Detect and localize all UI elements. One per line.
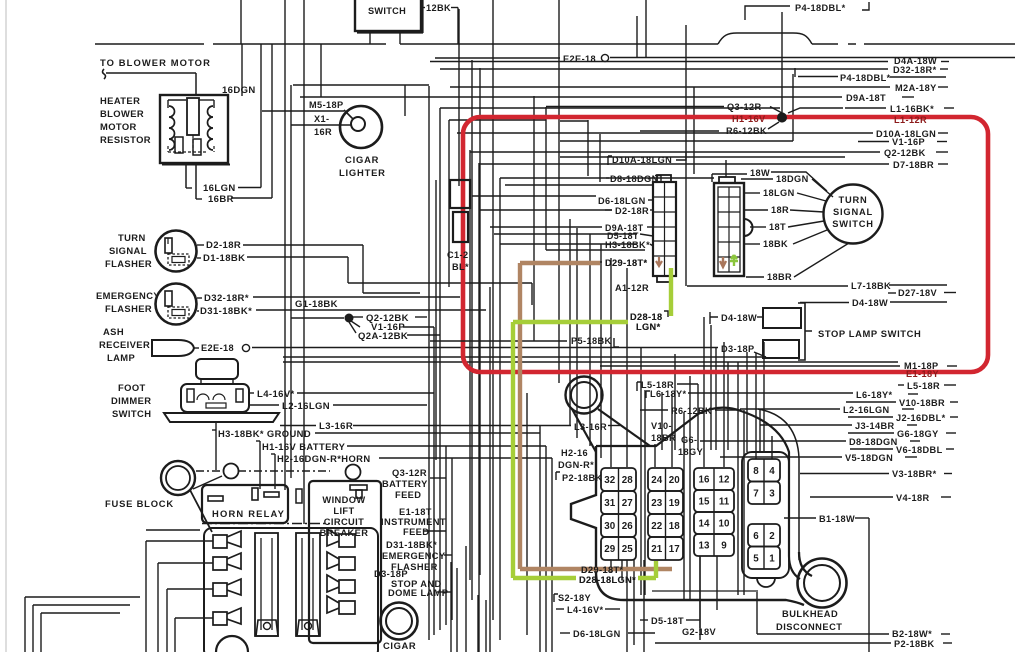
wire Q3 diag <box>770 107 782 114</box>
svg-text:18GY: 18GY <box>678 447 703 457</box>
wire M1-18P <box>600 365 900 367</box>
svg-text:29: 29 <box>604 544 615 555</box>
wire D4 left <box>800 302 849 304</box>
svg-text:V6-18DBL: V6-18DBL <box>896 445 943 455</box>
bulkhead lobe inner <box>571 382 597 408</box>
trunk wire v x=590 <box>589 234 591 446</box>
wire H3 bracket <box>215 430 217 470</box>
svg-text:D29-18T*: D29-18T* <box>581 565 624 575</box>
wire G1-18BK to junction <box>291 317 344 319</box>
trunk wire v x=534 <box>533 96 535 341</box>
dimmer dashed arc2 <box>213 394 225 400</box>
svg-text:E2E-18: E2E-18 <box>563 54 596 64</box>
svg-text:BULKHEAD: BULKHEAD <box>782 609 838 619</box>
svg-text:BL*: BL* <box>452 262 469 272</box>
svg-text:TURN: TURN <box>118 232 146 243</box>
svg-text:Q2-12BK: Q2-12BK <box>884 148 926 158</box>
svg-text:TO BLOWER MOTOR: TO BLOWER MOTOR <box>100 57 211 68</box>
svg-text:D2-18R: D2-18R <box>206 240 241 251</box>
svg-text:P5-18BK: P5-18BK <box>571 336 612 346</box>
wire 16LGN drop <box>185 163 187 188</box>
svg-text:LIFT: LIFT <box>333 506 354 516</box>
wire under red top <box>560 140 793 142</box>
resistor center lead down <box>192 135 194 152</box>
wire P4-18DBL drop <box>794 68 796 77</box>
trunk wire v x=434 <box>433 327 435 635</box>
connector B cell line y=227 <box>718 226 740 228</box>
svg-text:HEATER: HEATER <box>100 95 140 106</box>
window lift circuit breaker CB1 <box>309 481 381 643</box>
junction node G1 <box>345 314 354 323</box>
svg-text:D8-18DGN: D8-18DGN <box>610 174 659 184</box>
trunk wire v x=480 <box>479 68 481 575</box>
cigar lighter pointer <box>344 110 353 119</box>
wire L1 dash <box>944 107 954 109</box>
svg-text:L1-16BK*: L1-16BK* <box>890 104 934 114</box>
fuse clip left 3 <box>213 579 241 596</box>
svg-text:G6-18GY: G6-18GY <box>897 429 939 439</box>
wire L7 right <box>889 284 947 286</box>
wire Q2-12BK right <box>415 316 427 318</box>
green wire D28-18LGN vertical left <box>511 322 515 578</box>
resistor dashed right <box>213 146 215 152</box>
svg-text:24: 24 <box>651 475 662 486</box>
trunk wire v x=704 <box>703 317 705 467</box>
svg-text:18R: 18R <box>771 205 789 215</box>
svg-text:P4-18DBL*: P4-18DBL* <box>840 73 891 83</box>
wire D2-18R stub <box>197 244 204 246</box>
wire D29 dash <box>596 261 602 263</box>
bus wire seg4 <box>812 43 838 45</box>
trunk wire v x=559 <box>558 0 560 383</box>
cb terminal small <box>296 489 302 503</box>
wire below switch box 2 <box>399 31 401 44</box>
trunk wire v x=711 <box>710 325 712 450</box>
wire L2 dash <box>902 408 914 410</box>
wire 16BR drop <box>195 163 197 199</box>
svg-text:FEED: FEED <box>403 527 429 537</box>
wire fuse2 drop <box>157 563 159 652</box>
bracket D10A left <box>608 156 612 165</box>
wire D2-18R drop <box>362 245 364 293</box>
bottom left circle <box>216 636 248 652</box>
bus wire seg2 <box>213 43 386 45</box>
cigar lighter housing inner <box>386 608 412 634</box>
trunk wire v x=744 <box>743 410 745 595</box>
svg-text:V5-18DGN: V5-18DGN <box>845 453 893 463</box>
wire D1-18BK right <box>348 282 532 284</box>
svg-text:J3-14BR: J3-14BR <box>855 421 895 431</box>
foot dimmer body <box>181 384 249 412</box>
bulkhead grid C row 14-10 <box>694 512 734 534</box>
wire H1 right <box>347 445 546 447</box>
svg-text:32: 32 <box>604 475 615 486</box>
fuse block outline top <box>146 529 200 531</box>
wire D4A-18W <box>430 61 888 63</box>
wire H3 tick <box>212 429 216 431</box>
svg-text:10: 10 <box>719 519 730 530</box>
svg-text:L5-18R: L5-18R <box>907 381 940 391</box>
wire L5 link <box>677 383 698 385</box>
pivot dash line2 <box>238 470 330 472</box>
svg-text:G6-: G6- <box>681 435 698 445</box>
wire D8r dash <box>910 440 920 442</box>
wire 18BK to switch <box>793 230 827 244</box>
wire D4A dash <box>941 61 949 63</box>
wire D5 right <box>686 619 700 621</box>
ash receiver lamp symbol <box>152 340 194 356</box>
connector B divider <box>728 187 730 272</box>
svg-text:E2E-18: E2E-18 <box>201 343 234 353</box>
wire 16LGN right <box>238 187 261 189</box>
fuse holder left <box>256 620 278 636</box>
wire bundle outer1 <box>25 597 140 652</box>
wire D2 stub <box>650 209 653 211</box>
svg-text:D4-18W: D4-18W <box>721 313 757 323</box>
trunk wire v x=793 <box>792 74 794 141</box>
svg-text:V10-: V10- <box>651 421 672 431</box>
svg-text:26: 26 <box>622 521 633 532</box>
fuse strip right inner2 <box>312 538 314 630</box>
trunk wire v x=546 <box>545 107 547 250</box>
svg-text:18T: 18T <box>769 222 786 232</box>
wire E2E-18 right <box>610 57 1015 59</box>
trunk wire v x=738 <box>737 362 739 595</box>
bulkhead neck right <box>598 409 650 446</box>
wire D6 right <box>628 632 655 634</box>
wire V1 diag <box>351 321 360 327</box>
resistor top link right <box>199 99 214 101</box>
svg-text:15: 15 <box>699 497 710 508</box>
svg-text:2: 2 <box>769 531 775 542</box>
stop lamp switch box upper <box>763 308 801 328</box>
wire L3 stub <box>280 425 316 427</box>
wire L4 stub <box>249 392 254 394</box>
svg-text:D3-18P: D3-18P <box>374 569 408 579</box>
trunk wire v x=655 <box>654 444 656 467</box>
svg-text:INSTRUMENT: INSTRUMENT <box>381 517 446 527</box>
svg-text:27: 27 <box>622 498 633 509</box>
trunk wire v x=641 <box>640 347 642 595</box>
connector A1 body <box>653 182 676 276</box>
trunk wire v x=747 <box>746 352 748 452</box>
svg-text:H3-18BK* GROUND: H3-18BK* GROUND <box>218 428 311 439</box>
wire D32 dash <box>940 68 948 70</box>
bracket D4W stop <box>710 312 718 324</box>
wire fuse3 drop <box>166 589 168 652</box>
wire B2-18W <box>757 633 889 635</box>
wire M2A dash <box>938 86 948 88</box>
connector B outer <box>714 183 744 276</box>
brown wire D29-18T horizontal top <box>520 261 600 265</box>
stop lamp switch box lower <box>763 340 799 358</box>
trunk wire v x=724 <box>723 342 725 467</box>
bulkhead grid A row 30-26 <box>601 514 636 537</box>
bulkhead grid E row 5-1 <box>748 547 780 570</box>
green wire D28-18LGN bottom <box>513 561 656 578</box>
trunk wire v x=772 <box>771 436 773 459</box>
wire 18BR left <box>746 276 764 278</box>
wire stair y120 <box>449 119 546 121</box>
svg-text:16BR: 16BR <box>208 194 234 205</box>
wire D27 dash l <box>888 292 896 294</box>
bulkhead grid A row 31-27 <box>601 491 636 514</box>
trunk vertical a <box>240 0 242 44</box>
bracket L6 left <box>646 391 650 398</box>
svg-text:ASH: ASH <box>103 326 124 337</box>
bulkhead inner DE outline <box>742 452 789 578</box>
wire V5 dash <box>905 456 917 458</box>
trunk wire v x=577 <box>576 228 578 438</box>
svg-text:E1-18T: E1-18T <box>399 507 432 517</box>
svg-text:FOOT: FOOT <box>118 382 146 393</box>
connector B cell line y=242 <box>718 241 740 243</box>
svg-text:D8-18DGN: D8-18DGN <box>849 437 898 447</box>
svg-text:EMERGENCY: EMERGENCY <box>382 551 446 561</box>
resistor dashed bottom <box>168 151 208 153</box>
dimmer contact right <box>236 389 243 402</box>
dimmer dashed arc1 <box>197 394 209 400</box>
wire D1-18BK drop <box>347 257 349 283</box>
bulkhead grid B row 21-17 <box>648 537 683 560</box>
svg-text:31: 31 <box>604 498 615 509</box>
wire fuse4 drop <box>174 618 176 652</box>
switch box shadow right <box>421 0 423 33</box>
svg-text:D27-18V: D27-18V <box>898 288 938 298</box>
connector C1 lower <box>453 212 468 242</box>
connector B cell line y=257 <box>718 256 740 258</box>
svg-text:SWITCH: SWITCH <box>832 219 873 229</box>
svg-text:SIGNAL: SIGNAL <box>109 245 147 256</box>
trunk wire v x=457 <box>456 568 458 652</box>
svg-text:28: 28 <box>622 475 633 486</box>
wire D27 dash r <box>944 292 956 294</box>
svg-text:L3-16R: L3-16R <box>574 422 607 432</box>
svg-text:WINDOW: WINDOW <box>322 495 365 505</box>
wire D4 right <box>890 301 947 303</box>
bus wire seg5 <box>864 43 1015 45</box>
foot dimmer base <box>164 413 279 422</box>
wire connector B top <box>725 160 727 177</box>
connector A1 brown pin arrow <box>656 257 662 266</box>
bus wire hop arc <box>718 33 812 44</box>
resistor coil left lead <box>167 100 169 108</box>
wire D2 elbow <box>363 292 420 294</box>
svg-text:18BR: 18BR <box>767 272 792 282</box>
svg-text:LAMP: LAMP <box>107 352 135 363</box>
wire L7-18BK <box>687 285 848 287</box>
svg-text:25: 25 <box>622 544 633 555</box>
fuse block surround <box>204 528 378 652</box>
svg-text:L3-16R: L3-16R <box>319 421 353 432</box>
wire L3 into bulkhead <box>608 425 620 427</box>
svg-text:8: 8 <box>753 466 759 477</box>
svg-text:D6-18LGN: D6-18LGN <box>573 629 621 639</box>
svg-text:STOP LAMP SWITCH: STOP LAMP SWITCH <box>818 328 921 339</box>
trunk wire v x=728 <box>727 362 729 450</box>
stop lamp switch bracket <box>798 303 812 360</box>
relay pivot dashdot <box>202 523 330 525</box>
svg-text:DIMMER: DIMMER <box>111 395 151 406</box>
bus wire seg1 <box>95 43 204 45</box>
fuse holder right <box>297 620 319 636</box>
svg-text:DISCONNECT: DISCONNECT <box>776 622 842 632</box>
svg-text:G1-18BK: G1-18BK <box>295 299 338 310</box>
svg-text:P2-18BK: P2-18BK <box>562 473 603 483</box>
fuse block mounting circle inner <box>166 466 190 490</box>
wire G6 dash <box>946 432 956 434</box>
wire H2 right <box>379 457 552 459</box>
fuse strip left inner2 <box>271 538 273 630</box>
svg-text:6: 6 <box>753 531 759 542</box>
wire mid y362 <box>283 361 898 363</box>
svg-text:D9A-18T: D9A-18T <box>846 93 886 103</box>
wire H3 stub <box>650 244 653 246</box>
svg-text:18LGN: 18LGN <box>763 188 795 198</box>
cb mounting circle <box>346 465 361 480</box>
resistor coil right <box>208 106 214 150</box>
wire L4-16V* <box>297 392 434 394</box>
emergency flasher F2 <box>156 284 197 325</box>
connector A1 bottom cap <box>657 276 671 282</box>
svg-text:20: 20 <box>669 475 680 486</box>
bulkhead grid C row 15-11 <box>694 490 734 512</box>
svg-text:P2-18BK: P2-18BK <box>894 639 935 649</box>
green wire D28-18LGN vertical right <box>669 268 673 316</box>
svg-text:12: 12 <box>719 475 730 486</box>
dimmer contact left <box>187 389 194 402</box>
svg-text:D7-18BR: D7-18BR <box>893 160 934 170</box>
wire E2E-18 left <box>435 57 560 59</box>
wire R6 right <box>715 409 741 411</box>
trunk wire v x=690 <box>689 376 691 600</box>
brown wire D29-18T bottom <box>520 567 672 571</box>
svg-text:Q2A-12BK: Q2A-12BK <box>358 331 408 342</box>
trunk wire v x=490 <box>489 287 491 652</box>
wire V6 dash <box>946 448 954 450</box>
bus wire seg3 <box>400 43 718 45</box>
wire V4 link <box>810 496 893 498</box>
fuse clip left 1 <box>213 531 241 548</box>
horn relay terminal1 <box>208 496 223 501</box>
wire J2 link <box>848 416 893 418</box>
svg-text:9: 9 <box>721 541 727 552</box>
svg-text:G2-18V: G2-18V <box>682 627 717 637</box>
svg-text:L6-18Y*: L6-18Y* <box>650 389 687 399</box>
trunk wire v x=552 <box>551 458 553 652</box>
wire bundle outer3 <box>41 613 120 652</box>
wire L2-16LGN <box>333 404 427 406</box>
svg-text:18: 18 <box>669 521 680 532</box>
fuse holder left screw <box>264 623 271 630</box>
wire P4-18DBL top <box>745 6 790 20</box>
wire G6 link <box>848 432 894 434</box>
svg-text:V4-18R: V4-18R <box>896 493 930 503</box>
switch box shadow bottom <box>357 31 423 33</box>
wire 16BR elbow <box>196 198 202 200</box>
svg-text:B1-18W: B1-18W <box>819 514 855 524</box>
trunk wire v x=570 <box>569 219 571 425</box>
wire L2 stub <box>249 404 279 406</box>
fuse strip left inner1 <box>260 538 262 630</box>
svg-text:5: 5 <box>753 553 759 564</box>
svg-text:R6-12BK: R6-12BK <box>726 126 767 136</box>
svg-text:L4-16V*: L4-16V* <box>257 389 295 400</box>
trunk wire v x=764 <box>763 342 765 452</box>
bracket P4-18DBL top <box>862 2 869 10</box>
trunk wire v x=478 <box>477 595 479 652</box>
wire J3 link <box>760 424 852 426</box>
wire V3 link <box>800 473 889 475</box>
svg-text:FLASHER: FLASHER <box>105 258 152 269</box>
svg-text:V10-18BR: V10-18BR <box>899 398 945 408</box>
bulkhead DE tab <box>757 578 775 587</box>
svg-text:D32-18R*: D32-18R* <box>204 293 249 304</box>
dimmer base lead <box>215 422 217 430</box>
bulkhead grid C row 16-12 <box>694 468 734 490</box>
wire 18BR to switch <box>794 243 849 277</box>
wire H2 bracket <box>274 454 276 489</box>
resistor element small left <box>175 137 183 153</box>
wire J2 dash <box>950 416 958 418</box>
svg-text:21: 21 <box>651 544 662 555</box>
wire 18LGN left <box>745 192 760 194</box>
connector B bump <box>744 219 753 236</box>
wire X1-16R <box>291 124 352 126</box>
svg-text:23: 23 <box>651 498 662 509</box>
wire stub grid A1 <box>610 560 612 572</box>
trunk wire v x=646 <box>645 0 647 58</box>
wire 16BR right <box>231 197 272 199</box>
bulkhead grid D row 7-3 <box>748 482 780 505</box>
trunk wire v x=321 <box>320 44 322 97</box>
bracket P5 <box>614 338 619 347</box>
trunk wire v x=634 <box>633 560 635 645</box>
svg-text:Q3-12R: Q3-12R <box>392 468 427 478</box>
bulkhead grid B row 23-19 <box>648 491 683 514</box>
fuse block pivot circle <box>224 464 239 479</box>
flasher F1 inner <box>172 257 185 263</box>
wire L5r dash l <box>898 384 904 386</box>
svg-text:7: 7 <box>753 488 759 499</box>
wire V1 dash <box>937 141 947 143</box>
wire D2-18R <box>243 244 363 246</box>
trunk wire v x=440 <box>439 108 441 630</box>
wire fuse3 left <box>167 588 213 590</box>
wire inner bulkhead bottom <box>652 590 758 592</box>
svg-text:LGN*: LGN* <box>636 322 661 332</box>
wire 18W bracket <box>712 174 747 182</box>
wire 12BK dash <box>451 7 458 9</box>
wire 18BK left <box>744 243 760 245</box>
cigar lighter housing <box>381 603 418 640</box>
bulkhead lobe2 inner <box>804 565 840 601</box>
wire 12BK drop <box>457 8 459 45</box>
fuse clip right 3 <box>327 575 355 593</box>
svg-text:L4-16V*: L4-16V* <box>567 605 604 615</box>
bracket L5 left <box>637 382 641 391</box>
trunk wire v x=472 <box>471 60 473 600</box>
svg-text:1: 1 <box>769 553 775 564</box>
cb terminal T stem <box>356 490 362 498</box>
svg-text:19: 19 <box>669 498 680 509</box>
connector B brown pin arrow <box>720 257 726 267</box>
wire R6 diag <box>768 122 779 129</box>
svg-text:V3-18BR*: V3-18BR* <box>892 469 937 479</box>
resistor coil right lead <box>213 100 215 108</box>
resistor box R1 <box>160 95 228 163</box>
wire to D9A-18T <box>490 226 602 228</box>
